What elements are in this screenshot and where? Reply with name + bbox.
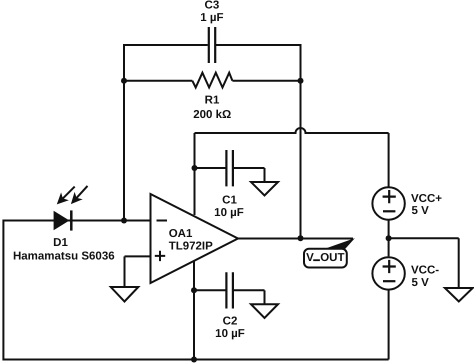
svg-text:5 V: 5 V	[412, 277, 430, 289]
svg-text:C1: C1	[222, 195, 237, 207]
svg-text:1 µF: 1 µF	[200, 12, 223, 24]
svg-text:10 µF: 10 µF	[215, 328, 245, 340]
svg-text:Hamamatsu S6036: Hamamatsu S6036	[13, 251, 115, 263]
svg-text:OA1: OA1	[169, 228, 193, 240]
svg-text:5 V: 5 V	[412, 205, 430, 217]
svg-text:VCC-: VCC-	[411, 265, 439, 277]
svg-text:C2: C2	[223, 315, 238, 327]
svg-text:V: V	[306, 252, 314, 264]
svg-text:VCC+: VCC+	[411, 193, 442, 205]
svg-text:10 µF: 10 µF	[214, 207, 244, 219]
svg-text:D1: D1	[53, 237, 68, 249]
svg-text:OUT: OUT	[320, 252, 344, 264]
svg-text:R1: R1	[205, 94, 220, 106]
svg-text:TL972IP: TL972IP	[169, 240, 213, 252]
svg-text:200 kΩ: 200 kΩ	[193, 109, 231, 121]
svg-text:C3: C3	[205, 0, 220, 11]
